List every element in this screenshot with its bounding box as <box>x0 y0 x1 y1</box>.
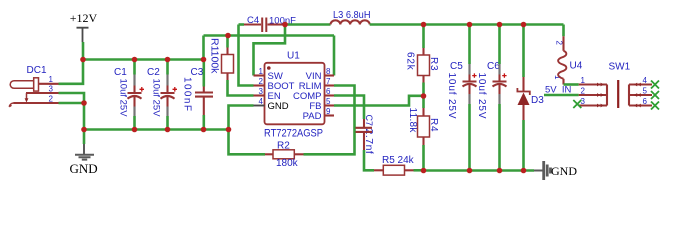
wire R5 to ground rail <box>414 169 424 172</box>
junction R1 top on VIN wire <box>225 33 231 39</box>
junction ground rail end / U1 GND riser <box>226 127 232 133</box>
capacitor C4 <box>239 15 297 32</box>
svg-text:4: 4 <box>259 97 264 106</box>
svg-text:10uf 25V: 10uf 25V <box>118 79 129 118</box>
pin 4 GND <box>254 105 265 107</box>
svg-text:1: 1 <box>581 76 586 85</box>
svg-text:10uf 25V: 10uf 25V <box>446 73 457 120</box>
junction D3 top <box>521 22 527 28</box>
resistor R2 <box>265 141 304 170</box>
junction ground rail / GND stem <box>81 127 87 133</box>
svg-text:RT7272AGSP: RT7272AGSP <box>264 128 323 140</box>
junction C3 bottom <box>201 127 207 133</box>
switch arrow <box>26 93 28 99</box>
svg-text:62k: 62k <box>405 52 416 71</box>
junction C6 bottom <box>497 168 503 174</box>
diode D3 <box>517 25 544 171</box>
svg-text:100nF: 100nF <box>182 77 193 112</box>
right bracket <box>628 85 630 106</box>
left bracket <box>606 85 608 106</box>
capacitor C1 <box>114 62 144 128</box>
svg-text:2: 2 <box>555 41 564 46</box>
ground symbol left <box>70 131 98 176</box>
svg-text:PAD: PAD <box>303 111 322 122</box>
svg-text:DC1: DC1 <box>27 65 47 76</box>
junction SW node C4/L3 <box>282 22 288 28</box>
capacitor C6 <box>476 25 507 171</box>
wire ground rail left <box>84 128 229 131</box>
svg-text:9: 9 <box>326 107 331 116</box>
pin 7 RLIM <box>325 84 335 86</box>
wire ground to R2 <box>229 130 266 155</box>
svg-text:10uf 25V: 10uf 25V <box>476 73 487 120</box>
inductor L3 <box>331 10 371 25</box>
svg-text:3: 3 <box>259 87 264 96</box>
junction +12V rail / DC1 pin1 <box>80 57 86 63</box>
resistor R5 <box>374 155 415 175</box>
svg-text:6: 6 <box>643 97 648 106</box>
junction C3 top / VIN riser <box>201 57 207 63</box>
svg-text:8: 8 <box>326 67 331 76</box>
svg-text:+12V: +12V <box>70 11 98 25</box>
svg-text:180k: 180k <box>276 158 299 169</box>
junction C1 bottom <box>132 127 138 133</box>
pin 3 <box>579 104 607 106</box>
svg-text:U1: U1 <box>287 51 300 62</box>
wire DC1 pin3 <box>59 93 85 103</box>
svg-text:D3: D3 <box>531 95 544 106</box>
pin 2 <box>579 94 607 96</box>
pin 1 SW <box>254 74 265 76</box>
wire VIN net horizontal <box>204 34 335 37</box>
junction R4 bottom / R5 on ground rail <box>421 168 427 174</box>
junction C5 top <box>467 22 473 28</box>
svg-text:3: 3 <box>581 97 586 106</box>
svg-text:SW1: SW1 <box>609 62 631 73</box>
lever hook <box>9 103 13 107</box>
svg-text:C7: C7 <box>364 115 374 127</box>
svg-text:3: 3 <box>49 84 54 93</box>
pin 4 <box>629 83 652 85</box>
wire SW net to pin 1 <box>254 25 286 76</box>
no-connect X pin 3 <box>573 100 581 108</box>
junction C6 top <box>497 22 503 28</box>
pin 8 VIN <box>325 74 335 76</box>
wire DC1 pin1 to rail <box>59 60 84 84</box>
svg-text:2: 2 <box>259 77 264 86</box>
wire BOOT net <box>239 25 254 86</box>
no-connect X pin 6 <box>651 102 659 110</box>
pin 3 EN <box>254 94 265 96</box>
pin 6 <box>629 104 652 106</box>
wire C7 to R5 <box>364 150 374 170</box>
svg-text:2: 2 <box>581 87 586 96</box>
resistor R1 <box>209 36 234 81</box>
svg-text:6: 6 <box>326 87 331 96</box>
svg-text:2: 2 <box>49 94 54 103</box>
pin 2 <box>14 102 59 104</box>
power port +12V <box>70 11 98 42</box>
wire VIN net down to pin 8 <box>333 36 336 76</box>
svg-text:1: 1 <box>49 75 54 84</box>
connector DC1 <box>9 65 58 107</box>
wire output rail <box>370 23 564 26</box>
svg-text:C2: C2 <box>147 67 160 78</box>
svg-text:C1: C1 <box>114 67 127 78</box>
resistor R3 <box>405 25 440 97</box>
resistor R4 <box>407 96 439 171</box>
junction C2 top <box>165 57 171 63</box>
capacitor C5 <box>446 25 477 171</box>
svg-text:11.8k: 11.8k <box>407 108 418 134</box>
svg-text:10uf 25V: 10uf 25V <box>151 79 162 118</box>
wire 5V_IN to SW1 pin 2 <box>544 94 579 97</box>
no-connect X pin 5 <box>651 91 659 99</box>
svg-text:5: 5 <box>326 97 331 106</box>
svg-text:4: 4 <box>643 76 648 85</box>
junction C1 top <box>132 57 138 63</box>
wire VIN net riser from rail <box>202 36 205 60</box>
svg-text:GND: GND <box>268 101 289 112</box>
junction R3 top on output rail <box>421 22 427 28</box>
capacitor C3 <box>182 62 214 128</box>
svg-text:5: 5 <box>643 87 648 96</box>
capacitor C2 <box>147 62 177 128</box>
junction C2 bottom <box>165 127 171 133</box>
pin 1 <box>39 83 59 85</box>
junction D3 bottom <box>521 168 527 174</box>
wire U4 to SW1 pin 1 <box>564 83 579 86</box>
pin 2 BOOT <box>254 84 265 86</box>
svg-text:R1100k: R1100k <box>209 38 221 74</box>
wire +12V stem to rail <box>82 42 85 60</box>
ferrite bead U4 <box>553 25 583 85</box>
pin 1 <box>579 83 607 85</box>
svg-text:1: 1 <box>259 67 264 76</box>
svg-text:U4: U4 <box>570 61 583 72</box>
pin 5 <box>629 94 652 96</box>
wire +12V rail <box>83 58 204 61</box>
wire R2 to RLIM riser <box>304 86 355 155</box>
svg-text:GND: GND <box>551 164 577 178</box>
wire ground rail right <box>424 169 535 172</box>
pin 3 <box>26 92 59 94</box>
svg-text:GND: GND <box>70 161 98 176</box>
ground symbol right <box>534 161 577 180</box>
pin 6 COMP <box>325 94 335 96</box>
wire SW node to L3 <box>285 23 331 26</box>
svg-text:7: 7 <box>326 77 331 86</box>
junction C5 bottom <box>467 168 473 174</box>
junction FB divider R3/R4 <box>421 93 427 99</box>
wire GND pin4 to ground rail <box>229 106 254 130</box>
connector SW1 <box>579 62 652 109</box>
capacitor C7 <box>356 115 376 155</box>
svg-text:C5: C5 <box>450 61 463 72</box>
wire DC1 pin2 to ground rail <box>59 103 85 130</box>
IC U1 RT7272AGSP <box>254 51 335 140</box>
pin 5 FB <box>325 104 335 106</box>
wire R1 bottom to EN <box>228 80 254 96</box>
wire COMP to C7 <box>334 96 364 120</box>
svg-text:R5 24k: R5 24k <box>382 155 415 166</box>
wire FB net <box>334 96 424 106</box>
pin 9 PAD <box>325 114 335 116</box>
no-connect X pin 4 <box>651 81 659 89</box>
junction DC1 pin3/pin2 <box>81 100 87 106</box>
separator bar <box>617 80 619 108</box>
